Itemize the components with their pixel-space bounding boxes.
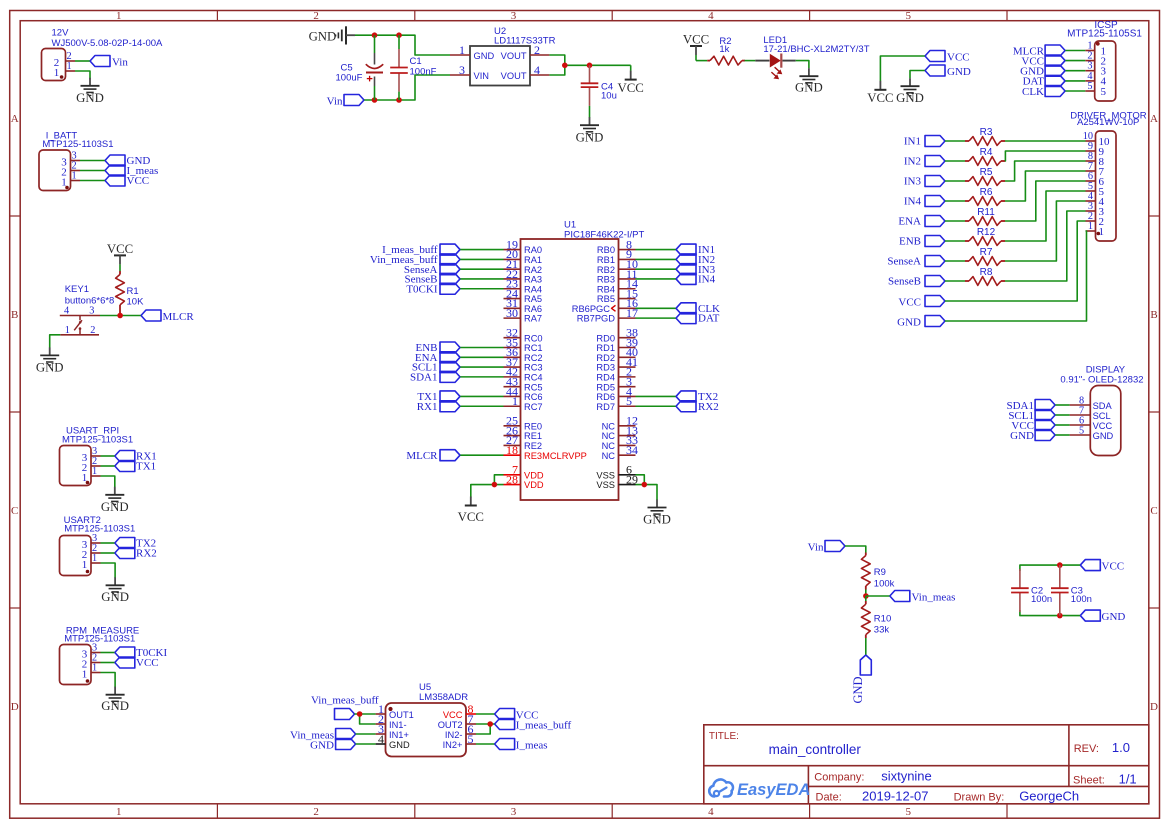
svg-text:1: 1 xyxy=(92,553,97,564)
svg-text:R12: R12 xyxy=(977,227,996,238)
frame row letters left xyxy=(11,113,19,713)
svg-text:GND: GND xyxy=(947,66,971,78)
svg-text:1: 1 xyxy=(65,325,70,336)
svg-text:28: 28 xyxy=(506,472,518,486)
wire R1 to MLCR node xyxy=(119,313,121,316)
connector I_BATT body xyxy=(39,150,71,191)
ground GND at U1 xyxy=(643,500,671,527)
wire C4 to ground xyxy=(589,106,591,118)
mcu U1 pin 33 NC xyxy=(602,433,638,451)
resistor R8 xyxy=(965,267,1005,285)
svg-text:VCC: VCC xyxy=(618,81,644,95)
key KEY1 labels xyxy=(65,284,115,307)
connector USART2 pin 3 xyxy=(82,533,101,551)
connector 12V pin1 mark xyxy=(60,75,64,79)
svg-text:RA5: RA5 xyxy=(524,294,542,304)
mcu U1 pin 42 RC4 xyxy=(504,365,543,383)
svg-text:100n: 100n xyxy=(1071,594,1092,605)
svg-text:10u: 10u xyxy=(601,90,617,101)
wire ENB to R12 xyxy=(945,240,965,242)
connector USART_RPI pin 2 xyxy=(82,456,101,474)
resistor R7 xyxy=(965,247,1005,265)
regulator U2 pin 4 VOUT xyxy=(501,63,550,81)
net flag TX2 at U1 xyxy=(676,391,718,403)
svg-text:B: B xyxy=(11,309,18,321)
svg-text:R10: R10 xyxy=(874,614,891,625)
wire R8 to DRIVER_MOTOR xyxy=(1005,211,1086,281)
svg-text:RX1: RX1 xyxy=(417,401,438,413)
mcu U1 pin 39 RD1 xyxy=(596,335,638,353)
mcu U1 pin 1 RC7 xyxy=(504,394,543,412)
svg-text:R8: R8 xyxy=(980,267,993,278)
net flag IN2 at U1 xyxy=(676,254,715,266)
svg-text:5: 5 xyxy=(468,732,474,746)
net flag VCC at DRIVER_MOTOR xyxy=(898,296,945,309)
svg-text:Vin: Vin xyxy=(112,57,128,69)
title text Drawn By: GeorgeCh xyxy=(954,788,1080,803)
net flag VCC xyxy=(105,175,149,187)
svg-text:5: 5 xyxy=(626,394,632,408)
svg-text:IN2+: IN2+ xyxy=(443,740,463,750)
resistor R1 xyxy=(116,271,144,313)
svg-text:Date:: Date: xyxy=(816,791,842,803)
wire MLCR to U1 xyxy=(460,454,504,456)
connector ICSP body xyxy=(1095,41,1116,101)
wire I_BATT to GND xyxy=(80,160,105,162)
mcu U1 pin 40 RD2 xyxy=(596,345,638,363)
ground GND mid xyxy=(896,78,924,105)
net flag RX2 at U1 xyxy=(676,401,719,413)
svg-text:VOUT: VOUT xyxy=(501,71,527,81)
connector ICSP pin 2 xyxy=(1085,51,1106,68)
mcu U1 pin 37 RC3 xyxy=(504,355,543,373)
svg-text:RB3: RB3 xyxy=(597,275,615,285)
svg-text:SCL: SCL xyxy=(1093,411,1111,421)
connector USART_RPI labels xyxy=(62,426,133,446)
net flag Vin at divider xyxy=(808,541,845,554)
svg-text:SenseB: SenseB xyxy=(888,276,921,288)
svg-text:VOUT: VOUT xyxy=(501,51,527,61)
svg-text:RX2: RX2 xyxy=(136,548,157,560)
svg-text:D: D xyxy=(1150,701,1158,713)
svg-text:NC: NC xyxy=(602,451,616,461)
connector DISPLAY body xyxy=(1090,386,1121,456)
mcu U1 pin 3 RD5 xyxy=(596,374,635,392)
wire U1 to TX2 xyxy=(636,395,677,397)
connector USART2 body xyxy=(60,536,92,576)
svg-text:A: A xyxy=(1150,113,1158,125)
wire U1 to DAT xyxy=(636,317,677,319)
ground GND at LED1 xyxy=(795,68,823,94)
svg-text:34: 34 xyxy=(626,443,638,457)
svg-text:TX1: TX1 xyxy=(136,461,156,473)
connector 12V pin 1 xyxy=(54,61,75,79)
mcu U1 pin 23 RA4 xyxy=(504,277,543,295)
net flag VCC at C2C3 xyxy=(1080,560,1124,573)
junction C5 bottom xyxy=(372,97,378,103)
connector DISPLAY pin 5 GND xyxy=(1070,425,1114,441)
svg-text:10K: 10K xyxy=(127,297,145,308)
svg-text:VCC: VCC xyxy=(127,175,150,187)
connector DISPLAY labels xyxy=(1060,365,1143,386)
svg-text:Vin: Vin xyxy=(327,95,343,107)
svg-text:IN4: IN4 xyxy=(698,274,716,286)
wire R11 to DRIVER_MOTOR xyxy=(1005,181,1086,221)
mcu U1 pin 14 RB4 xyxy=(597,277,638,295)
power VCC at U2 output xyxy=(618,65,644,95)
ground GND at RPM_MEASURE xyxy=(101,687,129,714)
net flag VCC mid xyxy=(925,51,970,64)
svg-text:RB1: RB1 xyxy=(597,255,615,265)
connector 12V labels xyxy=(52,28,164,49)
svg-text:0.91"- OLED-12832: 0.91"- OLED-12832 xyxy=(1060,375,1143,386)
mcu U1 pin 24 RA5 xyxy=(504,286,543,304)
svg-text:RE0: RE0 xyxy=(524,421,542,431)
mcu U1 pin 7 VDD xyxy=(504,463,544,481)
svg-text:1: 1 xyxy=(72,170,77,181)
connector RPM_MEASURE pin 3 xyxy=(82,642,101,660)
wire U1 to RX2 xyxy=(636,405,677,407)
connector I_BATT pin 3 xyxy=(61,150,80,168)
net flag ENA xyxy=(898,216,945,228)
net flag SCL1 at U1 xyxy=(412,362,460,374)
wire RPM_MEASURE to VCC xyxy=(101,662,115,664)
wire VCC rail C2 C3 xyxy=(1020,565,1080,571)
net flag MLCR at U1 xyxy=(406,450,460,462)
net flag DAT at U1 xyxy=(676,313,720,325)
svg-text:2: 2 xyxy=(313,806,319,818)
net flag GND at DISPLAY xyxy=(1010,430,1055,442)
svg-text:GND: GND xyxy=(897,316,921,328)
connector DRIVER_MOTOR pin1 mark xyxy=(1097,232,1101,236)
svg-text:RD3: RD3 xyxy=(596,363,615,373)
mcu U1 pin 29 VSS xyxy=(596,472,638,490)
wire USART2 to TX2 xyxy=(101,542,115,544)
op-amp U5 pin 6 IN2- xyxy=(445,722,476,740)
net flag I_meas xyxy=(105,165,158,177)
connector DRIVER_MOTOR pin 10 xyxy=(1083,131,1110,148)
svg-text:GND: GND xyxy=(36,360,64,374)
mcu U1 pin 16 RB6PGC xyxy=(572,296,638,314)
svg-text:DAT: DAT xyxy=(698,313,720,325)
svg-text:5: 5 xyxy=(1101,86,1107,98)
svg-text:SenseA: SenseA xyxy=(887,256,921,268)
regulator U2 body xyxy=(470,46,530,86)
mcu U1 pin 36 RC2 xyxy=(504,345,543,363)
junction C3 bottom xyxy=(1057,613,1063,619)
svg-text:NC: NC xyxy=(602,431,616,441)
svg-text:REV:: REV: xyxy=(1074,743,1099,755)
svg-text:Drawn By:: Drawn By: xyxy=(954,791,1005,803)
wire ENB to U1 xyxy=(460,347,504,349)
svg-text:1: 1 xyxy=(116,10,122,22)
mcu U1 pin 10 RB2 xyxy=(597,257,638,275)
resistor R5 xyxy=(965,167,1005,185)
connector RPM_MEASURE pin 2 xyxy=(82,652,101,670)
svg-text:R5: R5 xyxy=(980,167,993,178)
svg-text:LM358ADR: LM358ADR xyxy=(419,692,468,703)
svg-text:VSS: VSS xyxy=(596,470,615,480)
svg-text:TITLE:: TITLE: xyxy=(709,731,739,742)
svg-text:RE2: RE2 xyxy=(524,441,542,451)
junction C4 top xyxy=(587,63,593,69)
svg-text:R9: R9 xyxy=(874,567,886,578)
svg-text:RA3: RA3 xyxy=(524,275,542,285)
svg-text:1: 1 xyxy=(67,61,72,72)
resistor R4 xyxy=(965,147,1005,165)
wire IN4 to R6 xyxy=(945,200,965,202)
power VCC above R1 xyxy=(107,242,133,265)
svg-text:CLK: CLK xyxy=(1022,86,1044,98)
net flag GND mid xyxy=(925,65,971,78)
svg-text:VCC: VCC xyxy=(1102,560,1125,572)
key KEY1 pin numbers xyxy=(64,306,95,337)
net flag MLCR xyxy=(141,310,194,323)
wire R10 to GND flag xyxy=(865,638,867,655)
connector I_BATT pin 1 xyxy=(61,170,80,188)
net flag RX1 xyxy=(115,451,157,463)
svg-text:4: 4 xyxy=(64,306,69,317)
wire VCC to R1 xyxy=(119,264,121,271)
regulator U2 pin 2 VOUT xyxy=(501,43,550,61)
net flag DAT at ICSP xyxy=(1023,75,1065,87)
svg-text:VIN: VIN xyxy=(474,71,490,81)
svg-text:GND: GND xyxy=(1010,430,1034,442)
wire GND to U5 pin4 xyxy=(356,743,376,745)
connector USART_RPI body xyxy=(60,446,92,486)
wire 12V pin1 to ground xyxy=(75,71,90,79)
svg-text:VCC: VCC xyxy=(683,33,709,47)
power VCC mid xyxy=(867,81,893,105)
wire RX1 to U1 xyxy=(460,405,504,407)
svg-text:RC0: RC0 xyxy=(524,333,543,343)
net flag SDA1 at DISPLAY xyxy=(1006,400,1055,412)
wire Vin to R9 xyxy=(845,546,866,553)
connector DISPLAY pin 6 VCC xyxy=(1070,415,1113,431)
wire U1 VDD pins to VCC xyxy=(471,475,504,498)
wire IN1 to R3 xyxy=(945,140,965,142)
net flag ENB at U1 xyxy=(416,342,461,354)
svg-text:1k: 1k xyxy=(719,44,729,55)
mcu U1 pin 34 NC xyxy=(602,443,638,461)
net flag IN2 xyxy=(904,156,945,168)
wire R2 to LED1 xyxy=(745,60,756,62)
svg-text:B: B xyxy=(1150,309,1157,321)
mcu U1 pin 12 NC xyxy=(602,414,638,432)
connector RPM_MEASURE pin1 mark xyxy=(86,679,90,683)
svg-text:RA0: RA0 xyxy=(524,245,542,255)
svg-text:RD0: RD0 xyxy=(596,333,615,343)
svg-text:17-21/BHC-XL2M2TY/3T: 17-21/BHC-XL2M2TY/3T xyxy=(763,44,869,55)
svg-text:1: 1 xyxy=(54,67,60,79)
wire KEY1 pin1 to ground xyxy=(50,335,61,348)
key KEY1 switch xyxy=(60,316,100,335)
svg-text:RD2: RD2 xyxy=(596,353,615,363)
mcu U1 pin 28 VDD xyxy=(504,472,544,490)
svg-text:IN2-: IN2- xyxy=(445,730,463,740)
junction Vin_meas node xyxy=(863,593,869,599)
wire SDA1 to U1 xyxy=(460,376,504,378)
svg-text:MTP125-1103S1: MTP125-1103S1 xyxy=(64,634,135,645)
connector ICSP labels xyxy=(1067,20,1142,40)
connector DISPLAY pin 7 SCL xyxy=(1070,405,1111,421)
svg-text:VCC: VCC xyxy=(443,710,463,720)
net flag SDA1 at U1 xyxy=(410,371,460,383)
wire U2 VOUT pins to VCC rail xyxy=(549,55,630,75)
net flag RX2 xyxy=(115,548,157,560)
net flag ENA at U1 xyxy=(415,352,460,364)
ground GND at KEY1 xyxy=(36,347,64,374)
wire U1 to IN4 xyxy=(636,278,677,280)
wire U1 to CLK xyxy=(636,307,677,309)
net flag ENB xyxy=(899,236,945,248)
wire SenseB to R8 xyxy=(945,280,965,282)
junction U1 VSS xyxy=(642,482,648,488)
wire VCC to DRIVER_MOTOR pin2 xyxy=(945,221,1086,301)
svg-text:5: 5 xyxy=(906,806,912,818)
svg-text:2: 2 xyxy=(90,325,95,336)
net flag Vin xyxy=(90,56,128,69)
svg-text:3: 3 xyxy=(511,806,517,818)
net flag GND xyxy=(105,155,150,167)
svg-text:RB4: RB4 xyxy=(597,284,615,294)
title text Sheet: 1/1 xyxy=(1073,772,1137,787)
svg-text:RA1: RA1 xyxy=(524,255,542,265)
net flag VCC at DISPLAY xyxy=(1011,420,1055,432)
svg-text:GND: GND xyxy=(795,81,823,95)
net flag SenseB xyxy=(888,276,945,288)
wire VCC to R2 xyxy=(696,60,707,62)
connector I_BATT pin 2 xyxy=(61,160,80,178)
svg-text:RD4: RD4 xyxy=(596,372,615,382)
net flag SenseB at U1 xyxy=(405,273,461,285)
wire USART2 pin1 to ground xyxy=(101,563,116,578)
wire IN3 to R5 xyxy=(945,180,965,182)
svg-text:MLCR: MLCR xyxy=(406,450,438,462)
op-amp U2 labels xyxy=(494,26,556,47)
mcu U1 pin 43 RC5 xyxy=(504,374,543,392)
resistor R11 xyxy=(965,207,1005,225)
connector ICSP pin1 mark xyxy=(1096,42,1100,46)
mcu U1 pin 4 RD6 xyxy=(596,384,635,402)
mcu U1 pin 15 RB5 xyxy=(597,286,638,304)
connector ICSP pin 5 xyxy=(1085,81,1106,98)
mcu U1 pin 5 RD7 xyxy=(596,394,635,412)
wire R6 to DRIVER_MOTOR xyxy=(1005,171,1086,201)
op-amp U5 pin 7 OUT2 xyxy=(438,712,476,730)
svg-text:GND: GND xyxy=(389,740,410,750)
svg-text:RC5: RC5 xyxy=(524,382,543,392)
frame row letters right xyxy=(1150,113,1158,713)
svg-text:3: 3 xyxy=(511,10,517,22)
mcu U1 pin 41 RD3 xyxy=(596,355,638,373)
svg-text:VCC: VCC xyxy=(947,51,970,63)
ground GND at C4 xyxy=(576,117,604,144)
wire GND rail C2 C3 xyxy=(1020,610,1080,616)
net flag VCC at U5 xyxy=(495,709,539,722)
net flag T0CKI xyxy=(115,647,168,659)
svg-text:RC3: RC3 xyxy=(524,363,543,373)
connector USART2 pin 2 xyxy=(82,543,101,561)
wire USART_RPI pin1 to ground xyxy=(101,476,115,487)
net flag IN4 xyxy=(904,196,945,208)
wire SenseA to R7 xyxy=(945,260,965,262)
wire I_meas_buff to U1 xyxy=(460,249,504,251)
net flag Vin_meas at U5 xyxy=(290,729,356,742)
mcu U1 pin 17 RB7PGD xyxy=(577,306,638,324)
svg-text:MLCR: MLCR xyxy=(163,311,195,323)
svg-text:VCC: VCC xyxy=(867,91,893,105)
svg-text:4: 4 xyxy=(534,63,540,77)
connector ICSP pin 4 xyxy=(1085,71,1106,88)
junction C1 top xyxy=(396,32,402,38)
mcu U1 pin 26 RE1 xyxy=(504,423,543,441)
ground GND at USART2 xyxy=(101,577,129,604)
svg-text:GND: GND xyxy=(309,30,337,44)
svg-text:RX2: RX2 xyxy=(698,401,719,413)
svg-text:LD1117S33TR: LD1117S33TR xyxy=(494,36,556,47)
wire T0CKI to U1 xyxy=(460,288,504,290)
svg-text:RC4: RC4 xyxy=(524,372,543,382)
net flag GND vertical xyxy=(851,655,871,704)
capacitor C4 xyxy=(581,65,617,106)
connector USART_RPI pin 1 xyxy=(82,466,101,484)
svg-text:MTP125-1105S1: MTP125-1105S1 xyxy=(1067,29,1142,40)
svg-text:RB7PGD: RB7PGD xyxy=(577,314,616,324)
svg-text:IN4: IN4 xyxy=(904,196,922,208)
svg-text:100nF: 100nF xyxy=(410,67,437,78)
diode LED1 xyxy=(755,35,869,79)
wire Vin_meas to U5 pin3 xyxy=(356,733,376,735)
svg-text:VCC: VCC xyxy=(1093,421,1113,431)
svg-text:R4: R4 xyxy=(980,147,993,158)
mcu U1 pin 19 RA0 xyxy=(504,237,543,255)
wire ENA to U1 xyxy=(460,356,504,358)
svg-text:main_controller: main_controller xyxy=(769,742,862,757)
net flag IN1 xyxy=(904,136,945,148)
svg-text:RB2: RB2 xyxy=(597,265,615,275)
svg-text:RC6: RC6 xyxy=(524,392,543,402)
ground GND sideways at U2 input xyxy=(309,26,355,44)
wire RPM_MEASURE pin1 to ground xyxy=(101,673,116,688)
wire VCC flag to power xyxy=(880,56,925,81)
wire SCL1 to U1 xyxy=(460,366,504,368)
wire USART2 to RX2 xyxy=(101,552,115,554)
svg-text:IN1-: IN1- xyxy=(389,720,407,730)
net flag Vin_meas_buff at U1 xyxy=(370,254,460,266)
title text Date: 2019-12-07 xyxy=(816,788,929,803)
svg-text:RC2: RC2 xyxy=(524,353,543,363)
wire SenseB to U1 xyxy=(460,278,504,280)
svg-text:D: D xyxy=(11,701,19,713)
svg-text:18: 18 xyxy=(506,443,518,457)
net flag IN4 at U1 xyxy=(676,273,716,285)
wire U1 VSS pins to GND xyxy=(636,475,658,500)
wire GND to DRIVER_MOTOR pin1 xyxy=(945,231,1087,321)
svg-text:RE1: RE1 xyxy=(524,431,542,441)
mcu U1 pin 8 RB0 xyxy=(597,237,636,255)
regulator U2 pin 3 VIN xyxy=(450,63,489,81)
svg-text:1.0: 1.0 xyxy=(1112,740,1130,755)
svg-text:100n: 100n xyxy=(1031,594,1052,605)
svg-text:A: A xyxy=(11,113,19,125)
connector ICSP pin 3 xyxy=(1085,61,1106,78)
wire RPM_MEASURE to T0CKI xyxy=(101,652,115,654)
op-amp U5 body xyxy=(386,703,467,757)
svg-text:1/1: 1/1 xyxy=(1119,772,1137,787)
svg-text:IN3: IN3 xyxy=(904,176,922,188)
regulator U2 pin 1 GND xyxy=(450,43,494,61)
